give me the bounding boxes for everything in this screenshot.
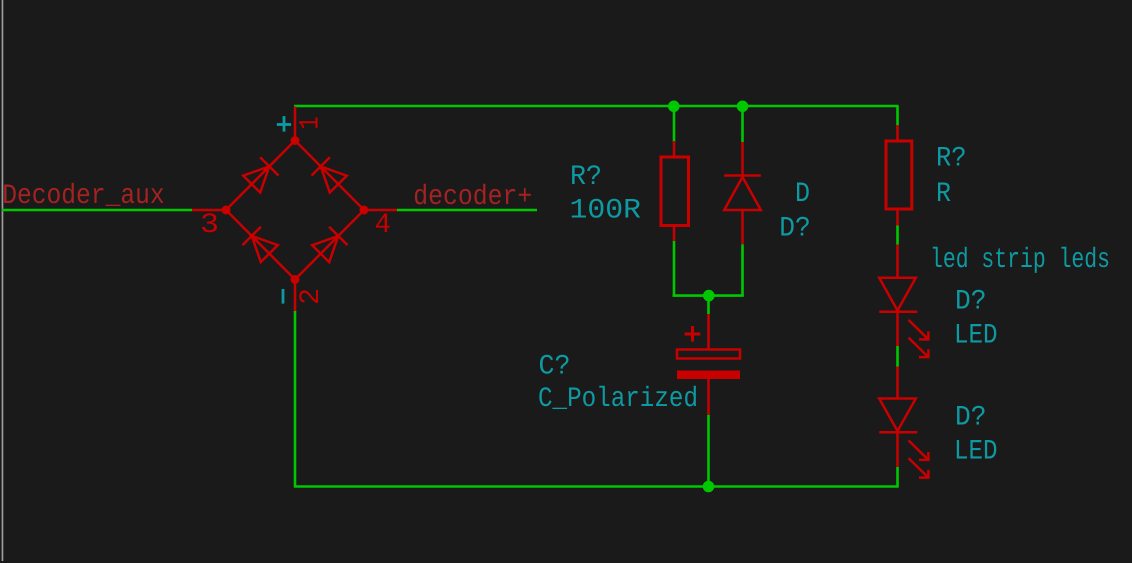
resistor R2 pin bottom	[896, 209, 899, 225]
bridge pin number 2	[296, 288, 327, 305]
svg-text:R: R	[936, 179, 951, 210]
wire R1 bottom	[673, 241, 676, 297]
wire cap top stub	[707, 296, 710, 315]
bridge diode top-right	[312, 157, 347, 192]
LED D2 pin bottom	[896, 312, 899, 346]
svg-text:led strip leds: led strip leds	[930, 245, 1110, 276]
wire D1 bottom	[741, 244, 744, 296]
bridge pin number 1	[296, 117, 327, 130]
svg-text:100R: 100R	[570, 196, 642, 227]
bridge pin 1 (top)	[294, 107, 297, 141]
bridge vertex dot left	[222, 206, 231, 215]
junction dot bottom	[703, 481, 715, 493]
wire right output	[397, 209, 537, 212]
capacitor C1 pin top	[707, 314, 710, 350]
svg-text:D?: D?	[779, 214, 811, 245]
bridge pin 4 (right)	[364, 209, 397, 212]
capacitor C1 top plate (hollow)	[677, 350, 740, 359]
junction dot top-right	[737, 101, 749, 113]
svg-text:2: 2	[296, 288, 327, 305]
sheet border line	[1, 0, 4, 561]
LED D2 triangle	[879, 278, 916, 311]
bridge pin name - (cyan, rotated)	[282, 289, 285, 304]
capacitor C1 plus sign	[685, 326, 701, 342]
svg-text:4: 4	[375, 210, 392, 241]
svg-text:Decoder_aux: Decoder_aux	[2, 181, 165, 212]
LED D2 pin top	[896, 245, 899, 278]
wire top bus	[294, 105, 899, 108]
LED D3 arrow 2	[909, 458, 930, 478]
wire R2-LED1	[896, 225, 899, 244]
bridge diode top-left	[243, 157, 278, 192]
LED D2 arrow 1	[909, 320, 930, 340]
LED D3 triangle	[879, 399, 916, 432]
diode D1 triangle	[724, 177, 761, 210]
junction dot top-left	[668, 101, 680, 113]
svg-text:D: D	[795, 179, 810, 210]
resistor R2 body	[886, 141, 912, 209]
resistor R2 pin top	[896, 125, 899, 141]
bridge pin name + (cyan)	[277, 116, 291, 132]
diode D1 cathode bar	[724, 174, 761, 177]
bridge vertex dot top	[291, 136, 300, 145]
resistor R1 pin bottom	[673, 226, 676, 241]
wire D1 top	[741, 106, 744, 142]
svg-text:LED: LED	[954, 321, 998, 352]
resistor R1 body	[661, 157, 689, 226]
LED D2 arrow 2	[909, 338, 930, 358]
LED D3 pin bottom	[896, 432, 899, 467]
bridge diode bottom-left	[243, 227, 278, 262]
svg-text:C_Polarized: C_Polarized	[538, 384, 698, 415]
svg-text:decoder+: decoder+	[413, 182, 532, 213]
wire bottom bus	[294, 485, 899, 488]
wire cap bottom	[707, 415, 710, 487]
bridge pin 3 (left)	[192, 209, 226, 212]
LED D3 pin top	[896, 367, 899, 399]
bridge vertex dot bottom	[291, 275, 300, 284]
capacitor C1 bottom plate (filled)	[677, 371, 740, 380]
svg-text:1: 1	[296, 117, 327, 130]
wire LED1-LED2	[896, 346, 899, 367]
bridge diode bottom-right	[312, 227, 347, 262]
resistor R1 pin top	[673, 141, 676, 157]
svg-text:C?: C?	[539, 352, 571, 383]
LED D2 cathode bar	[879, 310, 917, 313]
svg-text:LED: LED	[954, 437, 998, 468]
svg-text:R?: R?	[936, 144, 967, 175]
wire LED2-bus	[896, 467, 899, 488]
diode D1 pin top	[741, 142, 744, 176]
diode D1 pin bottom	[741, 210, 744, 244]
junction dot mid	[703, 290, 715, 302]
svg-text:D?: D?	[955, 287, 987, 318]
wire bridge bottom vertical	[294, 311, 297, 488]
LED D3 cathode bar	[879, 431, 917, 434]
wire right branch top	[896, 106, 899, 126]
bridge pin 2 (bottom)	[294, 280, 297, 312]
svg-text:R?: R?	[570, 162, 602, 193]
bridge vertex dot right	[360, 206, 369, 215]
wire R1 top	[673, 106, 676, 142]
bridge rectifier D? body diamond	[226, 141, 364, 280]
LED D3 arrow 1	[909, 440, 930, 460]
wire mid horizontal	[673, 294, 744, 297]
capacitor C1 pin bottom	[707, 379, 710, 415]
svg-text:D?: D?	[955, 403, 987, 434]
svg-text:3: 3	[200, 210, 219, 241]
wire left input	[2, 209, 192, 212]
